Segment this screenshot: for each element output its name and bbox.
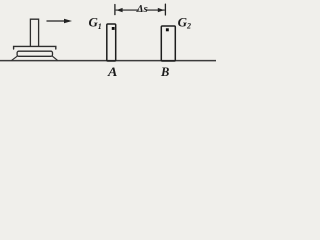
svg-text:1: 1	[98, 22, 102, 31]
svg-text:B: B	[160, 65, 169, 79]
svg-text:Δs: Δs	[136, 3, 148, 15]
svg-text:A: A	[107, 65, 118, 79]
svg-text:2: 2	[186, 22, 191, 31]
